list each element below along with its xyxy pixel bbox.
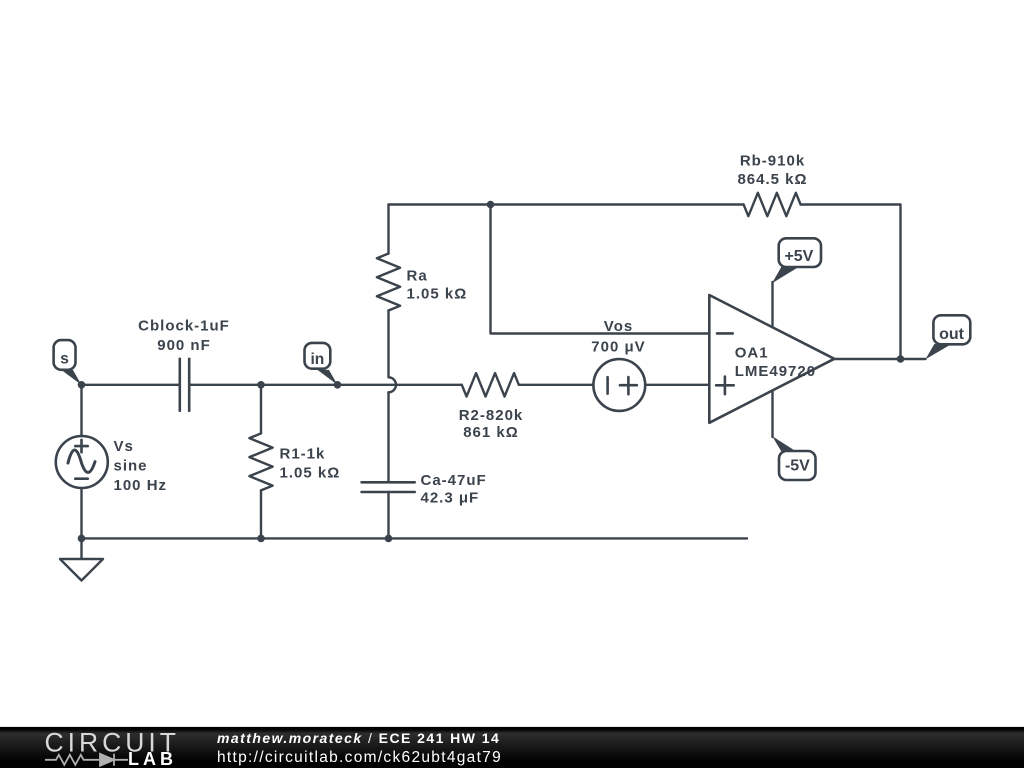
svg-text:LME49720: LME49720: [735, 363, 816, 380]
svg-text:42.3 μF: 42.3 μF: [421, 489, 480, 506]
node label -5V: [772, 436, 815, 480]
capacitor Cblock-1uF plates: [180, 359, 189, 411]
svg-text:861 kΩ: 861 kΩ: [463, 424, 519, 441]
svg-text:Vos: Vos: [604, 318, 633, 335]
wire R1 branch vertical: [260, 385, 262, 539]
wire op-amp output: [834, 358, 925, 360]
wire main horizontal net at y=385: [82, 384, 710, 386]
wire ground bottom rail: [82, 537, 748, 539]
svg-text:Ca-47uF: Ca-47uF: [421, 472, 487, 489]
node junction ground rail at Ca: [385, 535, 393, 543]
wire hop over main wire: [389, 377, 397, 392]
resistor R2-820k zigzag: [462, 373, 519, 396]
op-amp U1 triangle: [709, 295, 834, 423]
node s junction at Vs top: [78, 381, 86, 389]
svg-text:matthew.morateck / ECE 241 HW: matthew.morateck / ECE 241 HW 14: [217, 730, 500, 746]
svg-text:Cblock-1uF: Cblock-1uF: [138, 318, 230, 335]
node out junction: [897, 355, 905, 363]
svg-text:OA1: OA1: [735, 344, 769, 361]
node label in: [305, 343, 338, 385]
svg-text:R2-820k: R2-820k: [459, 407, 524, 424]
svg-text:s: s: [60, 351, 69, 368]
node label out: [926, 315, 971, 359]
svg-text:-5V: -5V: [785, 457, 810, 474]
resistor Rb-910k zigzag: [744, 193, 801, 216]
resistor R1-1k zigzag: [249, 433, 272, 490]
voltage source Vos circle: [593, 359, 645, 411]
svg-text:864.5 kΩ: 864.5 kΩ: [737, 171, 807, 188]
svg-text:900 nF: 900 nF: [157, 337, 211, 354]
resistor Ra zigzag: [377, 254, 400, 311]
svg-text:1.05 kΩ: 1.05 kΩ: [407, 285, 468, 302]
node label +5V: [772, 238, 821, 283]
labels text: [114, 152, 817, 506]
svg-text:+5V: +5V: [784, 248, 813, 265]
svg-text:R1-1k: R1-1k: [280, 445, 326, 462]
svg-text:Rb-910k: Rb-910k: [740, 152, 805, 169]
svg-text:1.05 kΩ: 1.05 kΩ: [280, 465, 341, 482]
svg-text:Ra: Ra: [407, 268, 428, 285]
voltage source Vs circle: [56, 436, 108, 488]
capacitor Ca-47uF plates: [362, 482, 415, 492]
logo squiggle resistor+diode: [45, 754, 128, 766]
ground symbol: [60, 538, 103, 580]
svg-text:Vs: Vs: [114, 438, 134, 455]
node junction top rail / inverting branch: [487, 201, 495, 209]
svg-text:in: in: [311, 351, 325, 368]
wire Ra/Ca branch vertical with hop: [387, 205, 389, 539]
svg-text:http://circuitlab.com/ck62ubt4: http://circuitlab.com/ck62ubt4gat79: [217, 749, 502, 766]
wire top feedback rail: [389, 205, 901, 360]
node junction Cblock/R1: [257, 381, 265, 389]
svg-text:LAB: LAB: [128, 749, 177, 768]
svg-text:sine: sine: [114, 458, 148, 475]
wire +5V supply: [771, 282, 773, 327]
node junction ground rail at R1: [257, 535, 265, 543]
wire inverting input: [491, 205, 710, 334]
wire -5V supply: [771, 391, 773, 437]
svg-text:700 μV: 700 μV: [591, 338, 645, 355]
node label s: [54, 340, 82, 385]
node in junction: [334, 381, 342, 389]
footer bar: [0, 727, 1024, 768]
svg-text:out: out: [939, 326, 965, 343]
wire source vertical left: [80, 385, 82, 539]
svg-text:100 Hz: 100 Hz: [114, 477, 168, 494]
node junction ground rail at Vs: [78, 535, 86, 543]
